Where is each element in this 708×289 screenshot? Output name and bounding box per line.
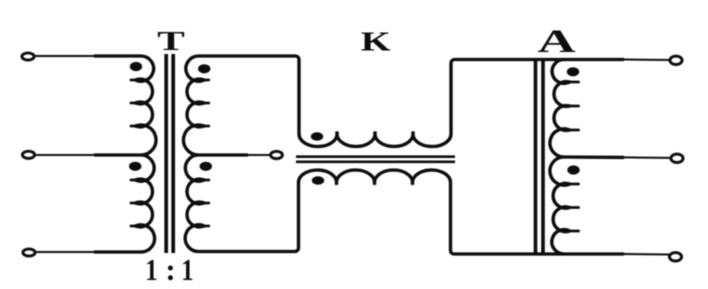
terminal left top: [22, 53, 34, 60]
wire T secondary top to K primary lead: [199, 56, 300, 134]
transformer T primary winding (left side, two coil sections): [134, 56, 156, 252]
svg-text:K: K: [361, 27, 391, 57]
transformer T core (double bar): [166, 54, 173, 253]
polarity dot K secondary: [312, 176, 324, 184]
wire left middle terminal to T primary centre tap: [35, 154, 94, 156]
wire T secondary bottom to K secondary lead: [199, 183, 299, 252]
wire K secondary right lead down to A bottom rail: [451, 183, 625, 255]
svg-text::: :: [165, 252, 175, 287]
transformer A core (double bar): [536, 61, 544, 253]
wire K primary right lead up to A top rail: [451, 60, 624, 135]
transformer K core (double bar horizontal): [296, 157, 455, 162]
transformer K primary coil (top, horizontal): [299, 132, 451, 147]
polarity dot T secondary top: [198, 64, 210, 73]
terminal left bottom: [23, 249, 35, 256]
wire T secondary centre tap to open terminal: [199, 153, 249, 156]
wire left bottom terminal to T primary bottom: [36, 251, 95, 253]
transformer T secondary winding (right side, two coil sections): [183, 56, 205, 252]
polarity dot T secondary bottom: [200, 162, 212, 171]
terminal right bottom: [669, 253, 681, 261]
polarity dot K primary: [311, 132, 323, 140]
polarity dot T primary top: [130, 62, 142, 71]
svg-text:1: 1: [181, 253, 193, 287]
terminal right middle: [671, 154, 683, 162]
svg-text:T: T: [157, 26, 185, 57]
svg-text:A: A: [537, 23, 575, 60]
cusp tongues T secondary: [200, 80, 209, 226]
transformer A winding (two coil sections): [550, 60, 571, 255]
terminal left middle: [22, 151, 34, 158]
svg-text:1: 1: [145, 253, 157, 287]
transformer K secondary coil (bottom, horizontal): [299, 170, 451, 185]
cusp tongues A winding: [566, 82, 579, 231]
wire A centre tap to right middle terminal: [564, 155, 624, 159]
polarity dot A top: [567, 67, 579, 76]
wire left top terminal to T primary (thin + thick segment): [35, 55, 95, 57]
terminal right top: [670, 56, 682, 64]
polarity dot T primary bottom: [129, 162, 141, 171]
terminal T secondary centre tap: [271, 151, 283, 158]
cusp tongues T primary: [131, 80, 140, 226]
polarity dot A bottom: [567, 165, 579, 174]
